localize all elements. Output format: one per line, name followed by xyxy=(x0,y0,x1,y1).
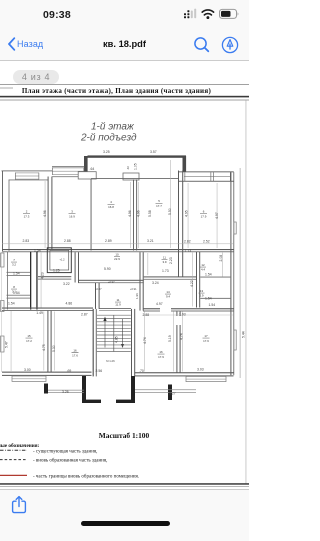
status bar background xyxy=(0,0,249,61)
corridor top wall double xyxy=(2,249,234,250)
svg-text:7: 7 xyxy=(13,258,15,262)
dim row line lower band xyxy=(143,314,233,316)
nav bar bottom hairline xyxy=(0,60,249,61)
toolbar background xyxy=(0,489,249,541)
dim row line above corridor wall xyxy=(2,243,233,245)
svg-text:17: 17 xyxy=(204,334,208,338)
search icon xyxy=(193,36,210,53)
dim line 2.08 xyxy=(221,253,224,277)
svg-text:16.9: 16.9 xyxy=(69,215,75,219)
svg-text:2.87: 2.87 xyxy=(81,312,88,316)
lower-left room right wall double xyxy=(47,311,48,373)
svg-text:+0.97: +0.97 xyxy=(108,280,115,284)
status bar time xyxy=(43,9,71,21)
svg-text:13: 13 xyxy=(200,289,204,293)
parapet right leg xyxy=(183,156,187,172)
stairs down arrow xyxy=(122,319,124,346)
terrace rail right xyxy=(135,388,196,391)
entrance bottom wall right part xyxy=(116,400,135,403)
door opening lower-right wall xyxy=(160,308,171,312)
svg-text:2.82: 2.82 xyxy=(184,240,191,244)
svg-text:1.54: 1.54 xyxy=(205,273,212,277)
svg-text:4.96: 4.96 xyxy=(128,210,132,217)
svg-text:5.19: 5.19 xyxy=(168,335,172,342)
table bottom thick rule xyxy=(0,483,249,485)
svg-text:4.97: 4.97 xyxy=(215,212,219,219)
svg-text:1.93: 1.93 xyxy=(179,312,186,316)
svg-text:+1.2: +1.2 xyxy=(60,259,66,262)
svg-text:17.9: 17.9 xyxy=(201,215,207,219)
svg-text:17.6: 17.6 xyxy=(72,354,78,358)
svg-text:1.49: 1.49 xyxy=(36,311,43,315)
bottom wall left double xyxy=(2,372,92,373)
corridor mid wall double xyxy=(78,280,144,281)
stairwell right wall double xyxy=(131,309,132,377)
svg-text:9.4: 9.4 xyxy=(166,295,170,299)
svg-text:5.44: 5.44 xyxy=(242,331,246,338)
top-left window box 1 xyxy=(15,172,39,175)
left edge window box 2 xyxy=(1,301,4,312)
svg-text:11: 11 xyxy=(163,256,166,260)
lower-left band top wall double xyxy=(2,308,93,309)
stairwell left wall double xyxy=(93,309,94,377)
svg-text:2: 2 xyxy=(26,210,28,214)
svg-text:.64: .64 xyxy=(90,167,95,171)
svg-text:14: 14 xyxy=(166,290,170,294)
left inner wall vertical xyxy=(8,180,11,251)
lower-right rooms divider wall double xyxy=(176,311,177,373)
svg-text:4.96: 4.96 xyxy=(136,210,140,217)
hall box inner xyxy=(50,250,69,270)
svg-text:Масштаб 1:100: Масштаб 1:100 xyxy=(99,431,150,440)
right edge window stick 1 xyxy=(234,222,236,234)
svg-text:5.47: 5.47 xyxy=(5,341,9,348)
svg-text:16.8: 16.8 xyxy=(108,205,114,209)
left outer wall vertical xyxy=(1,171,4,252)
parapet wall top middle xyxy=(88,155,187,157)
svg-text:16: 16 xyxy=(159,350,163,354)
svg-text:4.85: 4.85 xyxy=(115,336,119,343)
stairs xyxy=(97,308,131,351)
svg-text:3.57: 3.57 xyxy=(150,150,157,154)
svg-text:2-й подъезд: 2-й подъезд xyxy=(80,133,137,144)
svg-text:1.54: 1.54 xyxy=(8,302,15,306)
dim line 4.75 xyxy=(43,312,46,371)
room2 top line xyxy=(52,175,91,178)
svg-text:- вновь образованная часть зда: - вновь образованная часть здания, xyxy=(33,459,107,464)
corridor vertical wall left of stairs xyxy=(95,283,96,309)
hall box outer xyxy=(47,248,71,273)
bath divider wall xyxy=(7,294,31,297)
svg-text:3.00: 3.00 xyxy=(24,368,31,372)
porch right stub xyxy=(168,385,172,401)
svg-text:3.26: 3.26 xyxy=(62,390,69,394)
stairs up arrow xyxy=(104,320,106,348)
svg-text:15: 15 xyxy=(27,334,31,338)
svg-text:5.58: 5.58 xyxy=(148,210,152,217)
svg-text:11: 11 xyxy=(116,298,119,302)
svg-text:8: 8 xyxy=(13,285,15,289)
battery xyxy=(220,9,237,18)
top-right window mid line xyxy=(184,175,231,178)
dim line 2.23 xyxy=(147,253,150,275)
svg-text:4: 4 xyxy=(110,200,112,204)
bottom wall right double xyxy=(135,372,234,373)
svg-text:22.9: 22.9 xyxy=(114,257,120,261)
svg-text:17.3: 17.3 xyxy=(24,215,30,219)
right small rooms divider xyxy=(200,276,230,279)
room1 top line xyxy=(9,179,49,182)
PLAN_CONTENT xyxy=(0,84,249,483)
svg-text:16: 16 xyxy=(73,349,77,353)
svg-text:17.6: 17.6 xyxy=(203,339,209,343)
svg-text:.66: .66 xyxy=(126,166,130,170)
svg-text:12: 12 xyxy=(201,263,205,267)
svg-text:3.27: 3.27 xyxy=(169,391,176,395)
svg-text:1.13: 1.13 xyxy=(185,249,192,253)
svg-text:4.74: 4.74 xyxy=(143,337,147,344)
legend line new part xyxy=(0,459,27,461)
share icon xyxy=(11,495,27,515)
back label xyxy=(17,39,43,49)
bathroom cluster left inner face xyxy=(6,252,9,310)
vent box A xyxy=(78,172,96,179)
svg-text:4.23: 4.23 xyxy=(41,272,45,279)
svg-text:4.75: 4.75 xyxy=(42,344,46,351)
left edge window box 1 xyxy=(1,253,4,267)
svg-text:3: 3 xyxy=(71,210,73,214)
svg-text:2.08: 2.08 xyxy=(219,255,223,262)
dim line room3 xyxy=(129,182,132,248)
svg-text:1.05: 1.05 xyxy=(133,163,137,170)
dim line 5.47 bottom-left xyxy=(10,311,13,371)
svg-text:2.56: 2.56 xyxy=(96,369,103,373)
dim line 4.74 b xyxy=(181,312,184,372)
stray table border left of pill xyxy=(0,87,13,90)
parapet left leg xyxy=(84,156,88,172)
svg-text:+0.07: +0.07 xyxy=(95,287,102,291)
wall room2|room3 xyxy=(90,179,93,251)
page indicator pill xyxy=(13,70,59,85)
svg-text:+0.91: +0.91 xyxy=(130,287,137,291)
svg-text:2.88: 2.88 xyxy=(64,239,71,243)
svg-text:17.2: 17.2 xyxy=(26,339,32,343)
wall room3|room4 double xyxy=(132,180,135,251)
dim line 5.50 xyxy=(169,160,172,248)
wifi icon xyxy=(202,10,213,15)
dim line room4 right xyxy=(187,183,190,248)
back chevron xyxy=(7,37,16,51)
svg-text:2.83: 2.83 xyxy=(23,239,30,243)
svg-text:3.21: 3.21 xyxy=(147,239,154,243)
svg-text:5.50: 5.50 xyxy=(168,208,172,215)
PDF drawing svg placeholder xyxy=(0,0,249,540)
corridor vertical wall right of stairs xyxy=(140,252,141,310)
right edge window stick 2 xyxy=(234,330,236,350)
PLAN_TEXTS xyxy=(5,150,246,395)
svg-text:4.95: 4.95 xyxy=(185,210,189,217)
dim line 4.74 a xyxy=(144,312,147,372)
entrance bottom wall left part xyxy=(82,400,101,403)
svg-text:3.25: 3.25 xyxy=(103,150,110,154)
svg-text:.70: .70 xyxy=(139,369,144,373)
wall room4 | right section double xyxy=(178,171,179,277)
svg-text:4.4: 4.4 xyxy=(201,268,205,272)
table bottom thin rule xyxy=(0,485,249,488)
top-left window box 2 xyxy=(52,167,84,170)
svg-text:4.74: 4.74 xyxy=(180,333,184,340)
svg-text:5.90: 5.90 xyxy=(104,267,111,271)
bottom-right window box xyxy=(186,376,226,381)
svg-text:4.86: 4.86 xyxy=(66,302,73,306)
svg-text:2.9: 2.9 xyxy=(199,294,203,298)
svg-text:1.54: 1.54 xyxy=(13,272,20,276)
legend line existing part xyxy=(0,449,27,451)
wc divider wall xyxy=(7,271,31,274)
wall room1|room2 double xyxy=(48,177,49,251)
right outer wall double xyxy=(230,172,231,375)
door opening rooms divider xyxy=(176,316,181,325)
svg-text:17.7: 17.7 xyxy=(156,204,162,208)
svg-text:План этажа (части этажа), План: План этажа (части этажа), План здания (ч… xyxy=(22,87,212,95)
right small rooms left wall xyxy=(196,252,197,308)
stairs center divider xyxy=(113,315,115,351)
svg-text:1.73: 1.73 xyxy=(162,269,169,273)
svg-text:5.30: 5.30 xyxy=(52,345,56,352)
terrace rail left xyxy=(48,389,84,392)
svg-text:3.1: 3.1 xyxy=(12,290,16,294)
bottom-left window box xyxy=(12,376,46,381)
lower-right band top wall double xyxy=(143,308,234,309)
left edge window box 3 xyxy=(1,336,4,352)
dim line room2 xyxy=(44,181,47,248)
svg-text:3.03: 3.03 xyxy=(197,368,204,372)
entrance left thick wall xyxy=(82,376,86,403)
svg-text:1.96: 1.96 xyxy=(135,293,139,299)
table header thin rule xyxy=(0,99,249,102)
legend line red boundary xyxy=(0,474,27,476)
home indicator xyxy=(81,521,170,526)
svg-text:- существующая часть здания,: - существующая часть здания, xyxy=(33,449,97,454)
top-right inner wall line xyxy=(179,180,234,183)
svg-text:4.22: 4.22 xyxy=(190,280,194,287)
svg-text:3.9: 3.9 xyxy=(162,260,166,264)
svg-text:2.88: 2.88 xyxy=(143,313,150,317)
top-right outer wall line xyxy=(179,170,234,173)
svg-text:2.89: 2.89 xyxy=(105,239,112,243)
svg-text:17.9: 17.9 xyxy=(158,355,164,359)
svg-text:1.25: 1.25 xyxy=(53,269,60,273)
top-left outer wall line b (stepped) xyxy=(52,165,85,168)
svg-text:3.2: 3.2 xyxy=(12,263,16,267)
svg-text:3.24: 3.24 xyxy=(152,281,159,285)
status bar right icons xyxy=(180,6,242,24)
svg-text:1.54: 1.54 xyxy=(205,297,212,301)
document title xyxy=(0,39,249,49)
svg-text:6: 6 xyxy=(203,210,205,214)
interior dim hairlines xyxy=(1,160,233,372)
top-right window mullions xyxy=(184,172,187,181)
svg-text:- часть границы вновь образова: - часть границы вновь образованного поме… xyxy=(33,474,139,479)
top-left outer wall line a xyxy=(2,170,53,173)
vent box B xyxy=(123,173,139,180)
bathroom cluster thick vertical wall xyxy=(30,252,31,310)
svg-text:Условные обозначения:: Условные обозначения: xyxy=(0,442,40,449)
dim line room4 xyxy=(137,182,140,248)
right dimension line xyxy=(239,168,242,378)
dim line 5.30 xyxy=(53,312,56,371)
stair treads xyxy=(97,315,131,351)
svg-text:3.22: 3.22 xyxy=(63,282,70,286)
mid-right wall double xyxy=(144,276,197,277)
dim line 4.22 xyxy=(191,253,194,307)
dim line 5.19 xyxy=(172,312,175,372)
svg-text:4.97: 4.97 xyxy=(156,302,163,306)
corridor vertical wall right of hall box xyxy=(75,252,76,282)
right small rooms lower divider xyxy=(200,297,230,300)
svg-text:1.54: 1.54 xyxy=(34,249,41,253)
svg-text:2.23: 2.23 xyxy=(169,257,173,264)
middle rooms top line xyxy=(91,177,178,180)
porch left stub xyxy=(44,384,48,394)
stairwell top wall line xyxy=(99,307,131,310)
svg-text:2.52: 2.52 xyxy=(203,240,210,244)
entrance right thick wall xyxy=(131,376,135,403)
svg-text:.69: .69 xyxy=(67,369,72,373)
svg-text:11.9: 11.9 xyxy=(115,303,121,307)
svg-text:10: 10 xyxy=(115,253,119,257)
table right border xyxy=(245,100,248,483)
cellular signal dots xyxy=(184,10,189,18)
markup icon xyxy=(221,36,239,54)
svg-text:1-й этаж: 1-й этаж xyxy=(91,122,135,133)
left dim line xyxy=(0,252,2,372)
svg-text:5: 5 xyxy=(158,199,160,203)
svg-text:1.54: 1.54 xyxy=(209,303,216,307)
wall below hall box xyxy=(38,276,71,277)
dim line 4.23 corridor xyxy=(40,253,43,308)
svg-text:4.96: 4.96 xyxy=(43,210,47,217)
table header thick rule xyxy=(0,96,249,98)
table header top line xyxy=(0,83,249,86)
svg-text:h=1.26: h=1.26 xyxy=(106,359,115,363)
dim line room5 xyxy=(216,183,219,248)
